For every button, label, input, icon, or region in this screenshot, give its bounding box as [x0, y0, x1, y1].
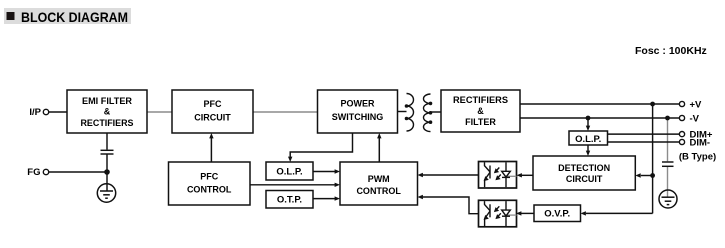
svg-text:(B Type): (B Type)	[679, 152, 716, 163]
svg-text:CIRCUIT: CIRCUIT	[566, 174, 603, 184]
svg-text:PFC: PFC	[200, 171, 219, 181]
svg-text:FILTER: FILTER	[465, 117, 496, 127]
svg-text:PFC: PFC	[204, 99, 223, 109]
svg-text:PWM: PWM	[368, 174, 390, 184]
svg-text:O.V.P.: O.V.P.	[544, 209, 570, 220]
svg-text:&: &	[477, 106, 484, 116]
svg-text:O.L.P.: O.L.P.	[276, 166, 302, 177]
svg-text:CONTROL: CONTROL	[356, 186, 401, 196]
svg-text:BLOCK DIAGRAM: BLOCK DIAGRAM	[21, 9, 128, 25]
svg-text:EMI FILTER: EMI FILTER	[82, 96, 132, 106]
svg-text:POWER: POWER	[340, 98, 375, 108]
svg-text:FG: FG	[27, 167, 40, 178]
svg-text:DETECTION: DETECTION	[558, 163, 610, 173]
svg-text:Fosc : 100KHz: Fosc : 100KHz	[635, 45, 707, 57]
svg-text:CIRCUIT: CIRCUIT	[194, 112, 231, 122]
svg-text:O.T.P.: O.T.P.	[277, 195, 302, 206]
svg-text:I/P: I/P	[29, 107, 41, 118]
svg-text:+V: +V	[690, 99, 703, 110]
svg-text:CONTROL: CONTROL	[187, 185, 232, 195]
svg-text:RECTIFIERS: RECTIFIERS	[453, 95, 508, 105]
svg-text:SWITCHING: SWITCHING	[332, 112, 384, 122]
svg-text:&: &	[104, 107, 111, 117]
svg-text:O.L.P.: O.L.P.	[575, 134, 601, 145]
svg-text:RECTIFIERS: RECTIFIERS	[81, 118, 134, 128]
svg-text:-V: -V	[690, 113, 700, 124]
svg-text:DIM-: DIM-	[690, 137, 711, 148]
